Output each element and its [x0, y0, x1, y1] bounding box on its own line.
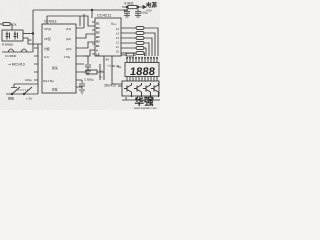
svg-text:C1 6800: C1 6800	[5, 54, 17, 58]
driver U3 box	[122, 81, 159, 96]
svg-text:CC4013: CC4013	[44, 20, 57, 24]
cap C1	[124, 12, 130, 16]
resistor R 12k	[3, 23, 10, 26]
svg-text:⇒ MC1413: ⇒ MC1413	[8, 63, 25, 67]
resistor R timing	[86, 70, 97, 74]
cap C1 drop	[126, 9, 128, 11]
svg-text:CP混: CP混	[44, 37, 51, 41]
node junction	[91, 9, 93, 11]
svg-text:+ 5V: + 5V	[26, 97, 32, 101]
svg-text:B2: B2	[96, 35, 100, 39]
wire left drop	[32, 10, 34, 52]
probe electrode 1	[6, 32, 10, 40]
driver rail drops	[126, 97, 153, 100]
transistor Q4	[151, 83, 159, 97]
probe electrode 2	[14, 32, 18, 40]
transistor Q1	[124, 83, 132, 97]
resistor R7	[126, 53, 134, 56]
svg-text:R 6800Ω: R 6800Ω	[2, 42, 13, 46]
ground for C3	[79, 90, 85, 94]
wire R7 leads	[121, 54, 136, 56]
resistor R1	[136, 27, 144, 30]
wire 12k to probe box	[10, 24, 12, 30]
wire jump arc 2	[21, 49, 27, 52]
segment wire row 6	[121, 52, 136, 54]
segment wire row 1	[121, 28, 158, 56]
cap C2	[135, 12, 141, 16]
resistor R2	[136, 32, 144, 35]
wire Vdd drop	[91, 10, 93, 18]
svg-text:校准: 校准	[52, 88, 58, 92]
svg-text:按钮: 按钮	[8, 96, 14, 101]
segment wire row 3	[121, 38, 152, 56]
wire R to node	[97, 64, 104, 80]
svg-text:振荡: 振荡	[52, 66, 58, 70]
svg-text:CC4211: CC4211	[97, 13, 112, 18]
display DS1 box	[125, 63, 159, 77]
svg-text:CP(4): CP(4)	[44, 27, 51, 31]
transistor Q3	[143, 83, 151, 97]
wire jump arc 1	[8, 49, 14, 52]
switch S1 blade 1	[12, 87, 20, 94]
svg-text:www.hqewdz.com: www.hqewdz.com	[134, 106, 157, 110]
svg-text:3DU413: 3DU413	[104, 84, 116, 88]
power arrow	[143, 6, 146, 9]
plus sign C1	[124, 9, 127, 12]
svg-text:2k: 2k	[29, 38, 33, 42]
svg-text:4.9kΩ: 4.9kΩ	[124, 2, 134, 6]
node dots power	[126, 6, 128, 8]
bus left of U1	[34, 44, 38, 82]
svg-text:100µ: 100µ	[25, 78, 32, 82]
svg-text:D3: D3	[96, 40, 100, 44]
wire driver label lead	[118, 85, 122, 87]
wire top rail	[33, 9, 128, 11]
svg-text:B1: B1	[96, 44, 100, 48]
display top pin comb	[127, 58, 157, 63]
svg-text:+ 5V: + 5V	[103, 58, 109, 62]
U1 right pin stubs	[76, 28, 88, 87]
svg-text:(1D): (1D)	[66, 47, 72, 51]
svg-text:100µ: 100µ	[141, 11, 148, 15]
wire switch top link	[14, 82, 38, 94]
sensor probe box	[2, 30, 23, 41]
switch gang link	[16, 89, 28, 91]
switch S1 wire	[6, 93, 36, 95]
switch S1 blade 2	[24, 87, 32, 94]
IC U2 CC4211 box	[95, 18, 121, 56]
wire left box top pin	[46, 16, 48, 24]
wire second rail	[47, 16, 95, 26]
wire U1 to U2 step 2	[84, 34, 95, 38]
display top pin pads	[126, 57, 128, 59]
transistor Q2	[134, 83, 142, 97]
svg-text:C 600µ: C 600µ	[84, 78, 94, 82]
svg-text:B3: B3	[96, 26, 100, 30]
capacitor C3 right of U1	[79, 80, 85, 89]
resistor R 12k lead	[0, 23, 3, 25]
resistor R6	[136, 52, 144, 55]
driver bottom rail	[122, 99, 160, 101]
svg-text:9–6: 9–6	[44, 55, 49, 59]
svg-text:12k: 12k	[12, 23, 17, 27]
cap C2 drop	[137, 9, 139, 11]
capacitor C4 right of U1	[85, 60, 91, 70]
svg-text:LE: LE	[96, 53, 100, 57]
wire U1 to U2 step 3	[84, 42, 95, 48]
segment wire row 4	[121, 43, 149, 56]
power resistor R 4.9k	[122, 6, 146, 8]
wire probe to node	[23, 33, 33, 35]
wire U1 to U2 step 4	[84, 50, 95, 56]
switch contacts	[11, 93, 13, 95]
resistor R3	[136, 37, 144, 40]
U2 left pin stubs	[92, 22, 95, 54]
node dot probe wire	[32, 33, 34, 35]
display bottom pin comb	[127, 77, 157, 82]
svg-text:分频: 分频	[44, 47, 50, 51]
ground C1	[124, 16, 130, 18]
resistor R5	[136, 47, 144, 50]
wire U1 to U2 step 1	[80, 14, 84, 28]
svg-text:1888: 1888	[129, 66, 156, 78]
ground C2	[135, 16, 141, 18]
resistor R4	[136, 42, 144, 45]
capacitor C5 bottom left	[11, 84, 17, 88]
background	[0, 0, 160, 110]
svg-text:(10): (10)	[66, 37, 71, 41]
op IC U1 box	[42, 24, 76, 93]
svg-text:D1: D1	[96, 22, 100, 26]
wire bottom left rail	[2, 51, 33, 53]
segment wire row 5	[121, 48, 146, 56]
wire U2 bottom to driver	[104, 56, 122, 84]
segment wire row 2	[121, 33, 155, 56]
svg-text:BL: BL	[118, 65, 122, 69]
svg-text:R(14.6k): R(14.6k)	[43, 79, 54, 83]
svg-text:170µ: 170µ	[64, 55, 71, 59]
svg-text:(13): (13)	[66, 27, 71, 31]
svg-text:D2: D2	[96, 31, 100, 35]
ground for C4	[85, 71, 91, 75]
wire probe lower lead	[23, 38, 42, 44]
